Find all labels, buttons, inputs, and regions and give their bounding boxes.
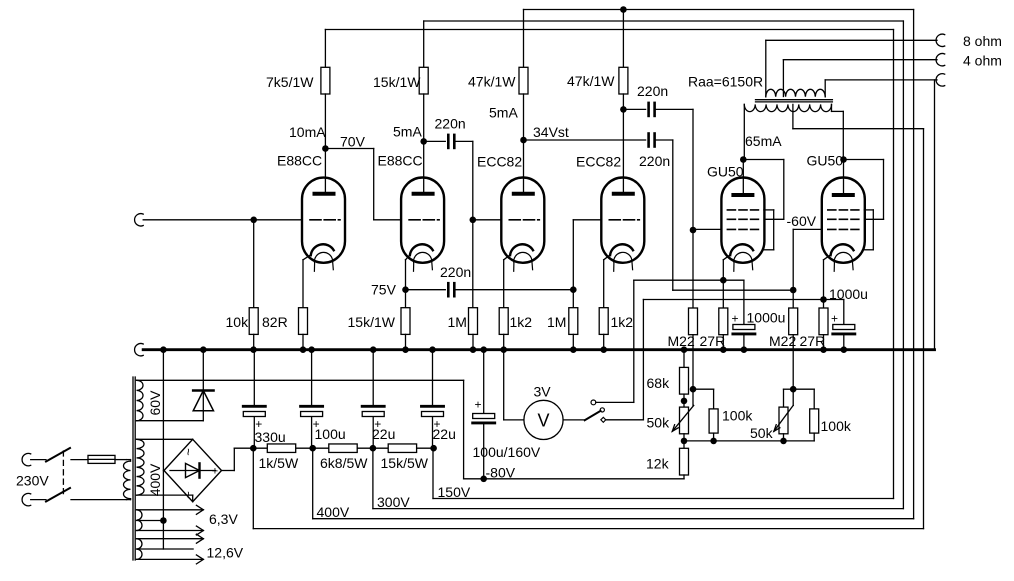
- svg-text:22u: 22u: [372, 426, 395, 442]
- svg-text:~: ~: [181, 491, 196, 499]
- svg-text:300V: 300V: [377, 494, 410, 510]
- svg-text:GU50: GU50: [707, 164, 744, 180]
- svg-text:400V: 400V: [147, 463, 163, 496]
- svg-text:1k/5W: 1k/5W: [259, 455, 299, 471]
- svg-text:75V: 75V: [371, 282, 397, 298]
- svg-text:15k/1W: 15k/1W: [373, 74, 421, 90]
- svg-text:E88CC: E88CC: [277, 153, 322, 169]
- svg-text:M22: M22: [769, 333, 796, 349]
- svg-text:1M: 1M: [448, 314, 467, 330]
- svg-text:10k: 10k: [226, 314, 250, 330]
- svg-text:10mA: 10mA: [289, 124, 326, 140]
- svg-text:60V: 60V: [147, 390, 163, 416]
- svg-text:M22: M22: [668, 333, 695, 349]
- svg-text:V: V: [537, 410, 549, 430]
- svg-text:5mA: 5mA: [393, 124, 422, 140]
- svg-text:330u: 330u: [255, 429, 286, 445]
- svg-text:50k: 50k: [750, 425, 774, 441]
- svg-text:65mA: 65mA: [745, 133, 782, 149]
- svg-text:22u: 22u: [433, 426, 456, 442]
- svg-text:+: +: [475, 398, 482, 412]
- svg-text:1M: 1M: [547, 314, 566, 330]
- svg-text:-60V: -60V: [787, 213, 817, 229]
- svg-text:34Vst: 34Vst: [533, 124, 569, 140]
- svg-text:12,6V: 12,6V: [207, 545, 244, 561]
- svg-text:E88CC: E88CC: [378, 153, 423, 169]
- svg-text:6k8/5W: 6k8/5W: [320, 455, 368, 471]
- svg-text:+: +: [212, 466, 218, 478]
- svg-text:1k2: 1k2: [611, 314, 634, 330]
- svg-text:1k2: 1k2: [510, 314, 533, 330]
- svg-text:1000u: 1000u: [829, 286, 868, 302]
- svg-text:7k5/1W: 7k5/1W: [266, 74, 314, 90]
- svg-text:100u/160V: 100u/160V: [473, 444, 541, 460]
- svg-text:1000u: 1000u: [747, 310, 786, 326]
- svg-text:ECC82: ECC82: [477, 154, 522, 170]
- svg-text:27R: 27R: [800, 333, 826, 349]
- svg-text:220n: 220n: [637, 83, 668, 99]
- svg-text:100k: 100k: [722, 408, 753, 424]
- svg-text:Raa=6150R: Raa=6150R: [688, 74, 763, 90]
- svg-text:+: +: [831, 312, 838, 326]
- svg-text:27R: 27R: [700, 333, 726, 349]
- svg-text:220n: 220n: [440, 264, 471, 280]
- svg-text:3V: 3V: [534, 384, 552, 400]
- svg-text:82R: 82R: [262, 314, 288, 330]
- svg-text:100k: 100k: [821, 418, 852, 434]
- svg-text:6,3V: 6,3V: [209, 511, 238, 527]
- svg-text:-80V: -80V: [486, 465, 516, 481]
- svg-text:220n: 220n: [639, 153, 670, 169]
- svg-text:100u: 100u: [315, 426, 346, 442]
- svg-text:GU50: GU50: [807, 153, 844, 169]
- svg-text:68k: 68k: [647, 375, 671, 391]
- svg-text:47k/1W: 47k/1W: [567, 73, 615, 89]
- svg-text:12k: 12k: [646, 456, 670, 472]
- svg-text:ECC82: ECC82: [576, 154, 621, 170]
- svg-text:4 ohm: 4 ohm: [963, 53, 1002, 69]
- svg-text:+: +: [732, 312, 739, 326]
- svg-text:70V: 70V: [340, 134, 366, 150]
- svg-text:400V: 400V: [317, 504, 350, 520]
- svg-text:220n: 220n: [435, 116, 466, 132]
- svg-text:5mA: 5mA: [489, 105, 518, 121]
- svg-text:230V: 230V: [16, 473, 49, 489]
- svg-text:15k/1W: 15k/1W: [348, 314, 396, 330]
- svg-text:8 ohm: 8 ohm: [963, 33, 1002, 49]
- svg-text:15k/5W: 15k/5W: [381, 455, 429, 471]
- svg-text:47k/1W: 47k/1W: [468, 74, 516, 90]
- svg-text:150V: 150V: [438, 484, 471, 500]
- svg-text:50k: 50k: [647, 415, 671, 431]
- svg-text:~: ~: [181, 448, 196, 456]
